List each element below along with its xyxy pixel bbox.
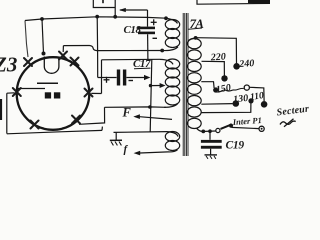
- svg-text:Z3: Z3: [0, 53, 17, 77]
- svg-text:F: F: [122, 106, 132, 120]
- svg-text:110: 110: [250, 91, 265, 103]
- svg-text:130: 130: [233, 93, 249, 106]
- svg-text:240: 240: [238, 58, 255, 70]
- svg-text:220: 220: [209, 51, 226, 63]
- svg-text:C19: C19: [226, 140, 245, 152]
- svg-text:C18: C18: [124, 24, 142, 36]
- svg-text:Inter P1: Inter P1: [231, 115, 262, 127]
